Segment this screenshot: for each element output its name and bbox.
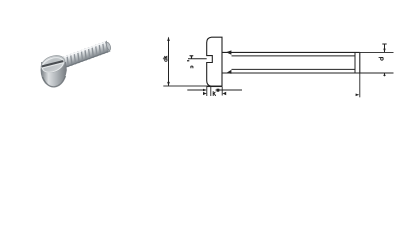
photo: screw head top face (39, 52, 68, 75)
dim t tail left (187, 89, 206, 91)
dim d bottom arrow (384, 73, 386, 76)
ext line slot bottom down (210, 87, 212, 97)
photo: screw tip (105, 41, 111, 52)
thread root top line (232, 55, 356, 57)
label t on tail (217, 89, 220, 92)
dim k left arrow (203, 92, 207, 95)
thread root bottom line (232, 68, 356, 70)
photo: screw shaft (59, 40, 112, 69)
head outline (207, 37, 222, 86)
ext line head left face down (206, 87, 208, 97)
ext line head bottom (dk) (163, 85, 207, 87)
photo: slot (41, 60, 64, 69)
dim t left arrow (203, 89, 207, 91)
dim d top arrow (384, 44, 386, 52)
photo: shaft bottom dark edge (63, 51, 110, 69)
photo: head bottom shadow edge (43, 76, 66, 87)
dim dk top arrow (167, 37, 170, 41)
dim dk vertical line (168, 38, 170, 86)
end face line (359, 52, 361, 73)
dim n upper arrow (191, 56, 193, 59)
dim k right arrow (223, 92, 227, 95)
dim n small dash (187, 60, 189, 61)
photo: shaft top highlight (59, 41, 106, 59)
thread runout top (226, 50, 231, 54)
thread runout bottom (226, 70, 231, 74)
ext line bottom right (d) (360, 72, 394, 74)
dim dk bottom arrow (167, 82, 170, 86)
shank outer bottom line (222, 72, 360, 74)
label dk (rotated) (163, 56, 168, 61)
dim l right arrow (356, 94, 360, 97)
label k (213, 91, 216, 96)
ext line screw end down (359, 73, 361, 97)
head bottom edge (207, 85, 222, 87)
ext line head right face down (221, 87, 223, 96)
chamfer line at tip (354, 52, 356, 73)
ext line top right (d) (360, 51, 394, 53)
label n (191, 66, 193, 68)
label d (rotated) (379, 58, 384, 61)
shank outer top line (222, 51, 360, 53)
dim n leader line (188, 58, 207, 60)
photo: screw head skirt (41, 62, 67, 87)
photo: thread ridges (63, 41, 109, 69)
dim t right arrow + tail (216, 89, 220, 91)
